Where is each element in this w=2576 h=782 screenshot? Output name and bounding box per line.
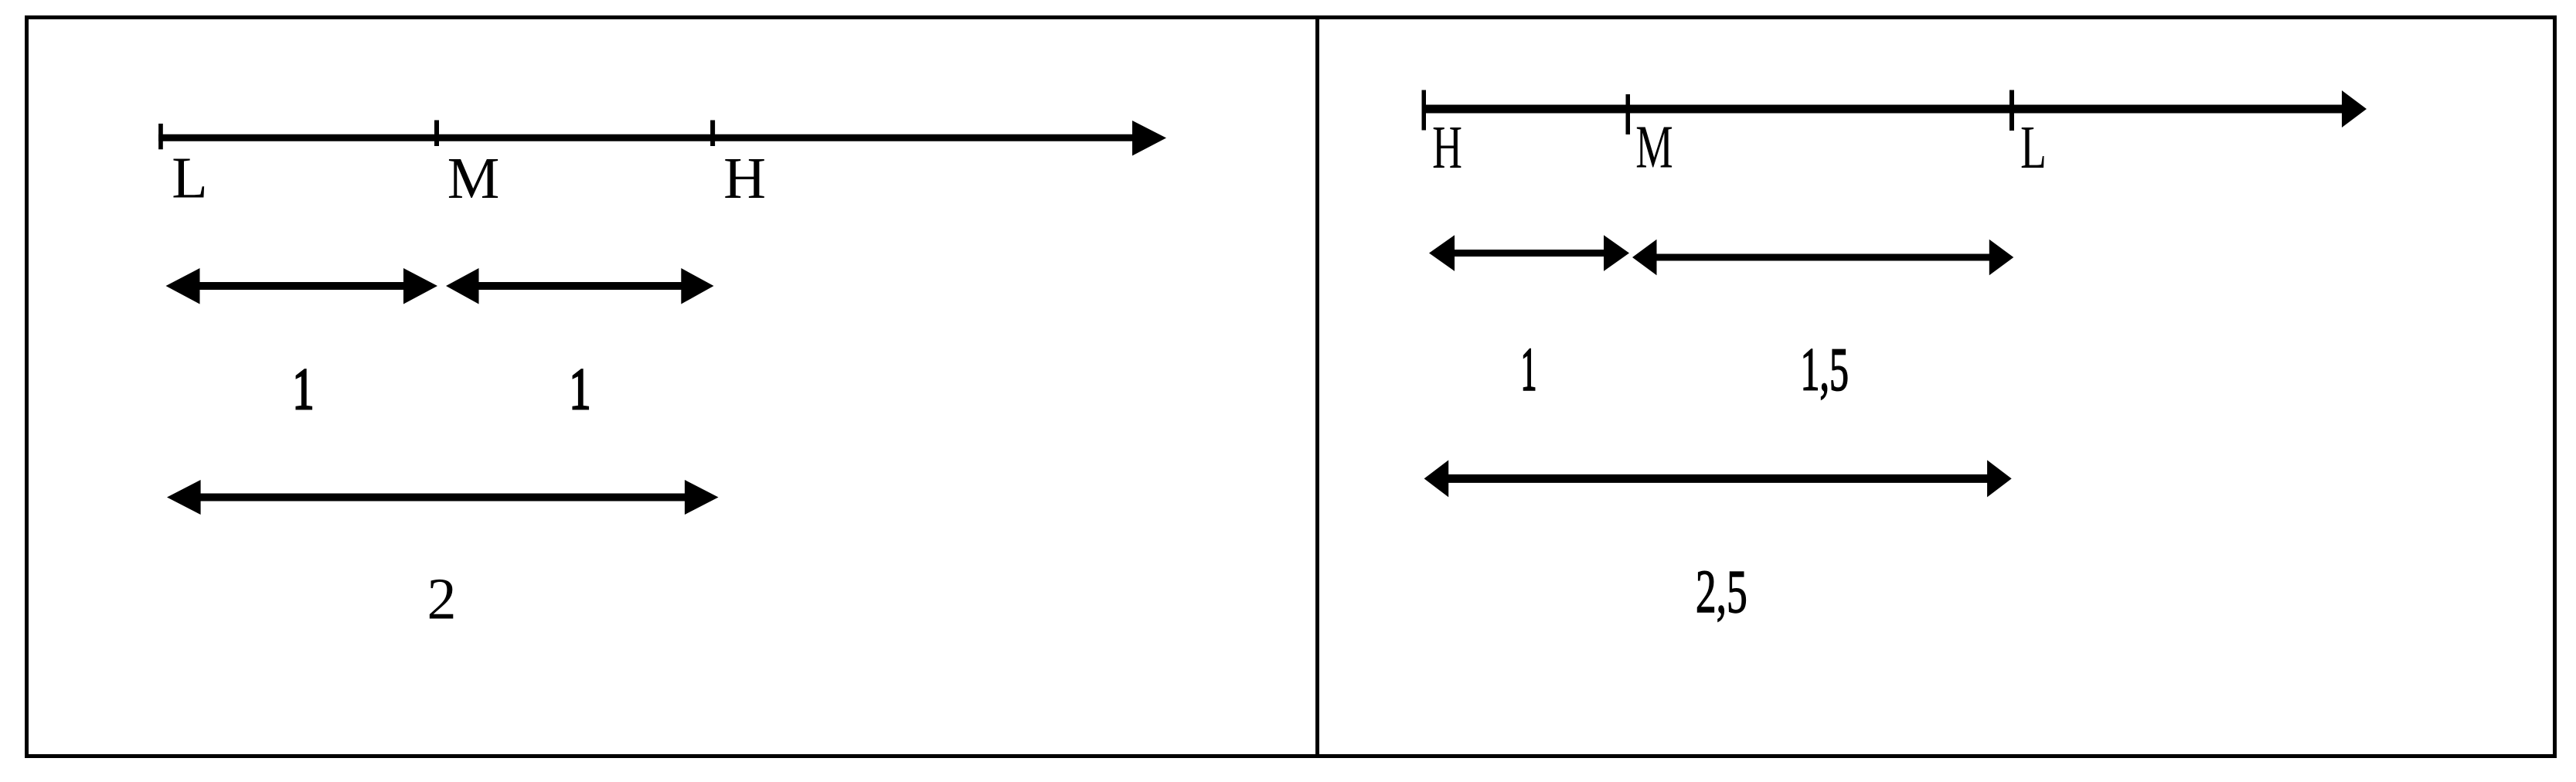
right long double arrow H-L (1445, 474, 1990, 483)
svg-text:2: 2 (427, 567, 457, 632)
left tick M (434, 121, 439, 147)
svg-text:L: L (2020, 113, 2047, 181)
right axis line (1422, 105, 2343, 114)
right tick L (2009, 90, 2014, 131)
left axis line (158, 134, 1134, 141)
left long double arrow L-H (197, 494, 688, 501)
svg-text:1: 1 (1521, 335, 1537, 403)
left axis arrowhead (1132, 121, 1166, 156)
right double arrow H-M (1450, 250, 1608, 257)
right tick M (1626, 94, 1631, 134)
svg-text:L: L (172, 146, 207, 211)
right axis arrowhead (2342, 90, 2367, 127)
right double arrow M-L (1654, 254, 1992, 261)
svg-text:1: 1 (293, 358, 315, 422)
left tick L (158, 124, 163, 149)
svg-text:1: 1 (570, 358, 591, 422)
svg-text:M: M (1635, 114, 1673, 181)
svg-text:H: H (723, 146, 766, 211)
left double arrow M-H (475, 282, 684, 290)
right tick H (1422, 90, 1427, 131)
svg-text:2,5: 2,5 (1696, 558, 1747, 626)
svg-text:M: M (447, 146, 500, 211)
panel divider (1315, 18, 1319, 756)
left tick H (710, 121, 715, 147)
left double arrow L-M (195, 282, 408, 290)
svg-text:1,5: 1,5 (1800, 336, 1848, 403)
svg-text:H: H (1432, 114, 1462, 182)
